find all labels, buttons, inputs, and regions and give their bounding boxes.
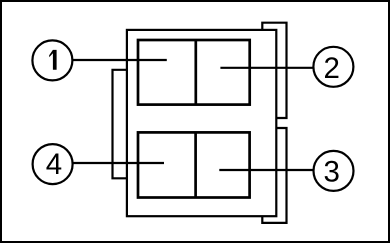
svg-text:3: 3 — [323, 155, 339, 188]
svg-text:4: 4 — [46, 148, 62, 181]
svg-text:2: 2 — [323, 52, 339, 85]
